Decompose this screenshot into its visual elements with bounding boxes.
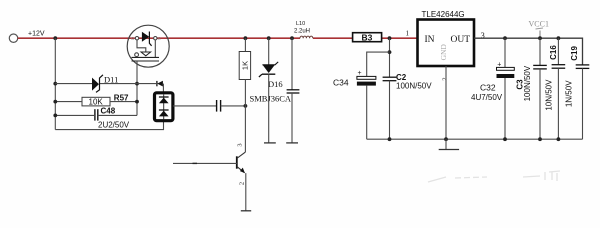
wire red rail to resistor 1K <box>244 38 246 51</box>
svg-text:C48: C48 <box>101 106 116 115</box>
wire from D11 row to series diode <box>137 83 156 85</box>
svg-text:OUT: OUT <box>451 35 471 45</box>
wire C32 down to rail <box>504 78 506 139</box>
inductor L10 <box>300 36 313 38</box>
wire C3 down to rail <box>539 69 541 139</box>
junction dot D16 top <box>267 36 271 40</box>
svg-text:1N/50V: 1N/50V <box>564 80 573 107</box>
wire bottom rail right section <box>367 138 583 140</box>
junction node collector/1K <box>244 104 248 108</box>
svg-text:10K: 10K <box>89 98 104 107</box>
svg-text:D16: D16 <box>268 79 283 89</box>
capacitor (unlabeled) at x292 <box>287 89 300 91</box>
capacitor C2 <box>383 76 397 78</box>
junction dot C16 top <box>557 36 561 40</box>
ground bar under D16 <box>264 142 276 144</box>
internal wire of dual diode <box>163 95 165 120</box>
capacitor C3 <box>533 64 547 66</box>
junction node at x=55 on +12V rail <box>53 36 57 40</box>
wire GND pin down to rail <box>445 66 447 139</box>
faint watermark smudges <box>428 171 560 182</box>
svg-text:C19: C19 <box>570 46 579 61</box>
series diode small <box>156 81 158 86</box>
svg-text:S: S <box>158 36 161 41</box>
wire C48 row <box>55 114 95 116</box>
junction dot C34 branch <box>388 50 392 54</box>
wire red +12V rail segment 1 <box>18 37 300 39</box>
wire red rail down to D16 <box>268 38 270 64</box>
transistor Q1 P-MOSFET in circle <box>127 25 169 67</box>
body diode of Q1 <box>142 32 149 42</box>
wire gate vertical of Q1 down to R57/C48 column <box>136 61 138 116</box>
svg-text:VCC1: VCC1 <box>529 20 549 29</box>
wire junction down to transistor collector <box>244 106 246 152</box>
svg-text:10N/50V: 10N/50V <box>545 79 554 111</box>
junction dot R57 row left <box>53 100 57 104</box>
capacitor C32 electrolytic <box>497 67 515 70</box>
wire pin 3 output net <box>474 38 583 65</box>
wire branch to C34 <box>367 52 390 76</box>
svg-text:IN: IN <box>425 35 435 45</box>
svg-text:2.2uH: 2.2uH <box>294 28 310 34</box>
svg-text:4U7/50V: 4U7/50V <box>471 93 503 102</box>
svg-text:+: + <box>497 62 501 69</box>
wire C34 down to rail <box>366 86 368 140</box>
wire red rail down to cap x292 <box>291 38 293 90</box>
capacitor C34 electrolytic <box>357 76 376 79</box>
svg-text:2: 2 <box>238 182 245 185</box>
capacitor (unlabeled) at x218 <box>216 100 218 112</box>
zener diode D16 <box>262 62 278 65</box>
svg-text:1K: 1K <box>241 61 250 70</box>
svg-text:C16: C16 <box>549 45 558 60</box>
wire C19 down to rail <box>582 68 584 139</box>
IC U1 TLE42644G <box>418 20 475 67</box>
svg-text:2: 2 <box>441 77 448 80</box>
junction dot D11 row right <box>135 82 139 86</box>
svg-text:SMBJ36CA: SMBJ36CA <box>250 94 292 104</box>
junction dot C3 top <box>538 36 542 40</box>
pin 1 tick on base wire <box>193 162 198 164</box>
wire bottom-left rail <box>55 121 163 129</box>
capacitor C48 <box>94 109 96 120</box>
svg-text:+12V: +12V <box>28 31 45 38</box>
wire D16 down to ground bar <box>268 74 270 143</box>
ferrite bead B3 <box>353 33 382 42</box>
capacitor C16 <box>552 64 566 66</box>
dual zener package (thick box) <box>155 93 173 121</box>
junction dot C48 row left <box>53 114 57 118</box>
transistor Q2 NPN <box>237 152 246 173</box>
svg-text:3: 3 <box>236 143 243 146</box>
wire output of dual diode to cap <box>173 105 216 107</box>
wire cap x292 down to ground bar <box>291 93 293 143</box>
terminal +12V input <box>9 34 17 42</box>
svg-text:GND: GND <box>439 44 448 61</box>
ground bar under emitter <box>241 210 251 212</box>
junction dot rail C3 <box>538 137 542 141</box>
svg-text:1: 1 <box>406 30 410 38</box>
substrate arrow of Q1 <box>141 52 151 56</box>
resistor R57 <box>82 97 110 106</box>
svg-text:C32: C32 <box>480 83 496 93</box>
svg-text:100N/50V: 100N/50V <box>396 81 432 90</box>
ground bar <box>439 149 459 151</box>
junction dot C32 top <box>503 36 507 40</box>
junction dot cap x292 top <box>290 36 294 40</box>
junction dot rail GND <box>444 137 448 141</box>
wire C2 down to rail <box>389 81 391 140</box>
ground stub below rail <box>445 139 447 149</box>
wire down to C3 <box>539 38 541 65</box>
diode top in package <box>159 96 169 98</box>
svg-text:C34: C34 <box>333 78 349 88</box>
junction dot after B3 <box>388 36 392 40</box>
resistor 1K vertical <box>239 52 250 80</box>
svg-text:D11: D11 <box>104 75 118 85</box>
wire red +12V rail segment 3 (after B3 to IC pin 1) <box>382 37 418 39</box>
wire red +12V rail segment 2 (after L10) <box>313 37 353 39</box>
wire cap to junction <box>221 105 246 107</box>
wire emitter down <box>245 173 247 211</box>
capacitor C19 <box>576 64 590 66</box>
wire from series diode down to dual diode box <box>162 84 164 93</box>
wire left branch vertical x=55 <box>54 38 56 129</box>
svg-text:L10: L10 <box>296 21 305 27</box>
wire down to C32 <box>504 38 506 67</box>
wire C16 down to rail <box>557 68 559 139</box>
junction dot R57 row right <box>135 100 139 104</box>
junction dot rail C2 <box>388 137 392 141</box>
svg-text:TLE42644G: TLE42644G <box>422 10 465 19</box>
junction dot 1K top on red rail <box>244 36 248 40</box>
wire 1K bottom to junction <box>244 80 246 106</box>
svg-text:+: + <box>358 70 362 77</box>
ground bar under cap x292 <box>286 142 298 144</box>
wire D11 row <box>55 83 92 85</box>
power symbol VCC1 <box>539 31 541 39</box>
wire down from B3 junction to C2 <box>389 38 391 77</box>
wire R57 row <box>55 101 82 103</box>
svg-text:100N/50V: 100N/50V <box>523 65 532 101</box>
wire down to C16 <box>557 38 559 64</box>
zener diode D11 <box>92 78 99 91</box>
svg-text:R57: R57 <box>114 93 129 102</box>
svg-text:2U2/50V: 2U2/50V <box>98 120 130 129</box>
diode bottom in package <box>159 109 169 111</box>
junction dot rail C16 <box>557 137 561 141</box>
junction dot rail C32 <box>503 137 507 141</box>
junction dot D11 row left <box>53 82 57 86</box>
wire base of Q2 <box>173 162 237 164</box>
svg-text:B3: B3 <box>362 33 373 43</box>
